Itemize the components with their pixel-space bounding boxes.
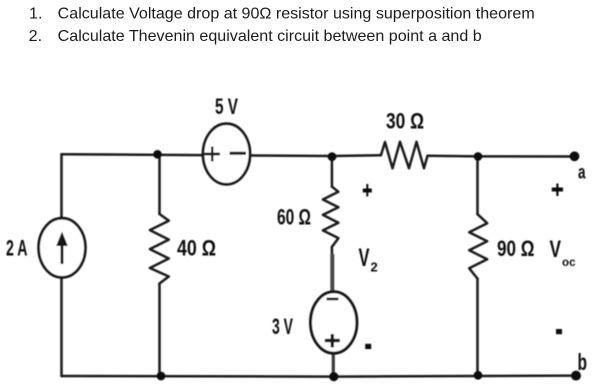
- svg-text:b: b: [578, 349, 588, 375]
- svg-text:3 V: 3 V: [272, 314, 293, 339]
- svg-text:2: 2: [371, 260, 378, 275]
- svg-text:40 Ω: 40 Ω: [177, 236, 216, 261]
- svg-text:a: a: [578, 163, 586, 184]
- svg-text:2.: 2.: [29, 28, 42, 45]
- svg-text:oc: oc: [562, 257, 576, 269]
- svg-text:2 A: 2 A: [6, 236, 28, 261]
- svg-text:Calculate Voltage drop at 90Ω: Calculate Voltage drop at 90Ω resistor u…: [58, 6, 535, 23]
- svg-text:30 Ω: 30 Ω: [386, 109, 424, 134]
- svg-text:60 Ω: 60 Ω: [277, 205, 311, 230]
- svg-text:90 Ω: 90 Ω: [497, 236, 535, 261]
- svg-text:Calculate Thevenin equivalent: Calculate Thevenin equivalent circuit be…: [58, 28, 482, 45]
- svg-text:V: V: [359, 244, 370, 272]
- svg-text:1.: 1.: [29, 6, 43, 23]
- svg-text:5 V: 5 V: [215, 94, 238, 119]
- svg-text:V: V: [550, 236, 562, 263]
